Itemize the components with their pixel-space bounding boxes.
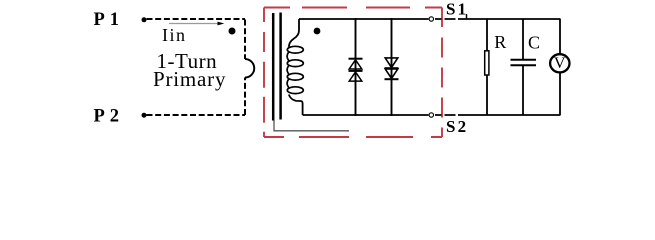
svg-text:C: C: [528, 33, 540, 53]
wire dashed primary vertical lower: [244, 78, 246, 116]
wire left diode branch: [355, 18, 357, 116]
capacitor C bottom plate: [511, 64, 537, 66]
terminal S1 open circle: [429, 17, 433, 21]
svg-text:S1: S1: [446, 0, 468, 18]
transformer core bar right: [279, 13, 282, 120]
wire voltmeter branch lower: [559, 73, 561, 116]
diode D4 triangle (pointing down): [385, 69, 398, 79]
resistor R body: [485, 51, 489, 75]
diode D3 cathode bar: [385, 67, 399, 69]
diode D2 triangle (pointing up): [349, 72, 362, 81]
wire resistor branch upper: [486, 19, 488, 51]
wire capacitor branch lower: [522, 65, 524, 115]
svg-text:P2: P2: [94, 106, 125, 126]
1-turn primary loop bump: [245, 59, 254, 78]
gray artifact line below core: [274, 121, 349, 131]
secondary winding bottom lead: [289, 95, 303, 116]
transformer core bar left: [272, 13, 275, 121]
svg-text:S2: S2: [446, 117, 468, 136]
diode D3 triangle (pointing down): [385, 58, 398, 68]
node P1 terminal dot: [142, 17, 147, 22]
secondary winding loops: [287, 46, 303, 93]
diode D2 cathode bar: [349, 70, 363, 72]
secondary polarity dot: [314, 28, 321, 35]
wire right diode branch: [391, 18, 393, 116]
svg-text:Primary: Primary: [153, 67, 226, 91]
wire voltmeter branch upper: [559, 19, 561, 55]
primary polarity dot: [229, 28, 236, 35]
diode D1 triangle (pointing up): [349, 60, 362, 69]
svg-text:R: R: [494, 32, 506, 52]
svg-text:V: V: [554, 55, 566, 72]
svg-text:P1: P1: [94, 10, 125, 30]
svg-text:Iin: Iin: [162, 25, 187, 45]
wire top rail: [299, 18, 429, 20]
current Iin arrow: [169, 22, 224, 26]
voltmeter V circle: [550, 54, 569, 72]
sensor boundary red dashed box: [264, 8, 442, 138]
node P2 terminal dot: [142, 113, 147, 118]
terminal S2 open circle: [429, 113, 433, 117]
wire dashed P2 to primary: [147, 114, 246, 116]
wire bottom rail: [303, 114, 429, 116]
capacitor C top plate: [511, 59, 537, 61]
wire dashed P1 to primary: [147, 18, 246, 20]
diode D4 cathode bar: [385, 78, 399, 80]
wire dashed primary vertical upper: [244, 20, 246, 60]
wire capacitor branch upper: [522, 19, 524, 59]
secondary winding top lead: [289, 19, 299, 47]
stub tick near S1: [466, 14, 468, 19]
diode D1 cathode bar: [349, 58, 363, 60]
wire resistor branch lower: [486, 76, 488, 116]
